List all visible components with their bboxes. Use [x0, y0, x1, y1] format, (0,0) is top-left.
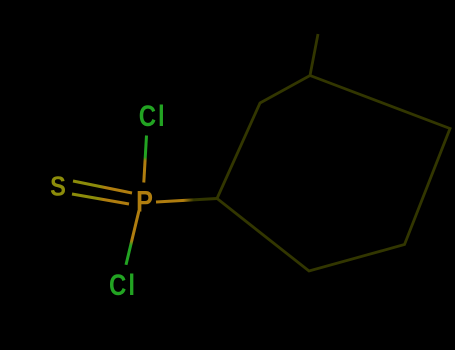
- ring cyclohexane: [217, 76, 450, 272]
- wire P-Cl top bond: [144, 136, 147, 183]
- wire P=S double bond upper line: [73, 181, 132, 193]
- wire P-C ring bond: [156, 199, 217, 203]
- svg-text:Cl: Cl: [109, 269, 137, 302]
- wire P-Cl bottom bond: [126, 211, 139, 265]
- wire P=S double bond lower line: [72, 194, 129, 204]
- methyl stub: [310, 34, 318, 76]
- svg-text:P: P: [136, 186, 153, 219]
- svg-text:S: S: [50, 171, 66, 202]
- svg-text:Cl: Cl: [139, 100, 167, 133]
